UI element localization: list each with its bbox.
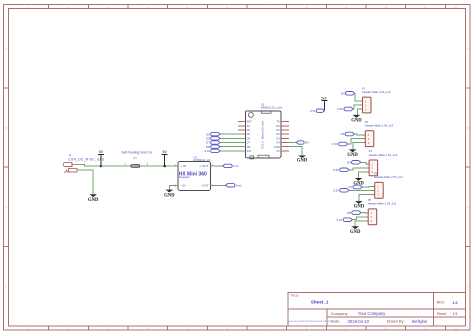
svg-text:D5: D5 — [341, 132, 345, 136]
net label 3.3V at P5 — [336, 218, 352, 222]
junction at J1 5V node — [100, 165, 103, 168]
svg-text:3V3: 3V3 — [247, 149, 252, 153]
net label 3.3v at U3 +OUT — [223, 164, 239, 168]
svg-text:Drawn By:: Drawn By: — [387, 319, 405, 324]
svg-text:3.3v: 3.3v — [233, 164, 239, 168]
net label 3.3v at U1 — [204, 149, 220, 153]
net label 3.3V at P4 — [333, 189, 349, 193]
svg-text:+ OUT: + OUT — [199, 164, 208, 168]
svg-text:GND: GND — [297, 159, 308, 164]
svg-text:A: A — [467, 46, 469, 50]
svg-text:- OUT: - OUT — [201, 184, 209, 188]
svg-text:GND: GND — [354, 205, 365, 210]
svg-text:3.3v: 3.3v — [310, 109, 316, 113]
wire net 3.3V to P4 pin 2 — [349, 189, 372, 191]
net label 3.3V at P1 — [337, 107, 353, 111]
svg-text:3v3: 3v3 — [321, 96, 327, 100]
svg-text:10: 10 — [384, 327, 388, 331]
ground at P5 — [350, 226, 361, 235]
U1 pin D1 — [276, 128, 289, 132]
net label D7 at U1 — [206, 141, 220, 145]
svg-text:F1: F1 — [134, 156, 138, 160]
U1 pin RST — [238, 120, 252, 124]
wire net 3.3v to U1 3V3 — [220, 150, 245, 152]
wire P5 pin 3 to ground — [355, 221, 365, 227]
ground at P2 — [347, 149, 358, 158]
wire net D8 to U1 D8 — [220, 146, 245, 148]
net label D8 at P5 — [347, 211, 361, 215]
svg-text:D5: D5 — [247, 132, 251, 136]
wire U1 D4 to net D4 — [289, 142, 296, 144]
ground at P4 — [354, 201, 365, 210]
svg-text:2019-04-10: 2019-04-10 — [348, 319, 370, 324]
svg-text:GND: GND — [88, 198, 99, 203]
U1 pin D7 — [238, 141, 251, 145]
wire net D7 to P4 pin 1 — [362, 185, 372, 188]
fuse F1 Self-healing fuse 1A — [121, 150, 152, 167]
U1 pin A0 — [238, 124, 250, 128]
svg-text:11: 11 — [424, 5, 427, 9]
connector J1 CON_DC_M-DC_S&D — [63, 153, 105, 173]
svg-text:D: D — [467, 284, 469, 288]
svg-text:5V: 5V — [163, 150, 168, 154]
wire P2 pin 3 to ground — [353, 143, 363, 150]
wire U3 +OUT to 3.3v — [211, 165, 223, 167]
svg-text:RX: RX — [276, 124, 280, 128]
svg-text:Header-Male 2.54_1x3: Header-Male 2.54_1x3 — [362, 90, 391, 94]
svg-text:D4: D4 — [305, 141, 309, 145]
wire P4 pin 3 to ground — [359, 194, 372, 201]
svg-text:10: 10 — [384, 5, 388, 9]
header P5 Header-Male 2.54_1x3 — [366, 198, 397, 225]
net label D6 at P3 — [347, 161, 361, 165]
net label Gnd at U3 -OUT — [226, 184, 242, 188]
svg-text:Header-Male 2.54_1x3: Header-Male 2.54_1x3 — [369, 153, 398, 157]
svg-text:D2: D2 — [276, 132, 280, 136]
svg-text:B: B — [467, 126, 469, 130]
svg-text:11: 11 — [424, 327, 427, 331]
power flag 5V at J1 — [98, 150, 104, 166]
svg-text:V3.1.0: V3.1.0 — [261, 141, 265, 149]
svg-text:5V: 5V — [277, 149, 280, 153]
svg-text:D4: D4 — [276, 141, 280, 145]
svg-text:Header-Male 2.54_1x3: Header-Male 2.54_1x3 — [368, 202, 397, 206]
svg-text:Your Company: Your Company — [358, 311, 386, 316]
svg-text:TITLE:: TITLE: — [290, 294, 299, 298]
svg-text:+ IN: + IN — [181, 164, 187, 168]
svg-text:3.3V: 3.3V — [333, 189, 339, 193]
svg-text:D3: D3 — [276, 136, 280, 140]
svg-text:TX: TX — [276, 120, 280, 124]
svg-text:GND: GND — [350, 230, 361, 235]
svg-text:D1: D1 — [276, 128, 280, 132]
svg-text:Sheet_1: Sheet_1 — [311, 299, 329, 304]
svg-text:thefrybit: thefrybit — [412, 319, 428, 324]
U1 pin D0 — [238, 128, 251, 132]
svg-text:- IN: - IN — [181, 184, 186, 188]
wire U3 -OUT to Gnd — [211, 184, 226, 186]
svg-text:C: C — [5, 205, 7, 209]
svg-text:D8: D8 — [347, 211, 351, 215]
svg-text:Wemos D1 mini: Wemos D1 mini — [261, 120, 265, 139]
wire 5V node to fuse F1 — [101, 165, 131, 167]
wire net D5 to U1 D5 — [220, 133, 245, 135]
svg-text:1.0: 1.0 — [452, 301, 457, 305]
wire J1 pin to 5V net — [78, 165, 102, 167]
net label D5 at U1 — [206, 132, 220, 136]
svg-text:GND: GND — [347, 153, 358, 158]
svg-text:Header-Male 2.54_1x3: Header-Male 2.54_1x3 — [374, 175, 403, 179]
wire net D7 to U1 D7 — [220, 142, 245, 144]
svg-text:RST: RST — [247, 120, 253, 124]
svg-text:5V: 5V — [99, 150, 104, 154]
svg-text:12: 12 — [454, 5, 458, 9]
U1 pin D8 — [238, 145, 251, 149]
svg-text:D8: D8 — [247, 145, 251, 149]
U1 pin D6 — [238, 136, 251, 140]
svg-text:3.3V: 3.3V — [333, 168, 339, 172]
wire P1 pin 3 to ground — [358, 109, 360, 115]
wire net D8 to P5 pin 1 — [361, 212, 366, 214]
svg-text:A0: A0 — [247, 124, 251, 128]
power flag 3v3 — [321, 96, 328, 110]
net label D6 at U1 — [206, 137, 220, 141]
svg-text:D: D — [5, 284, 7, 288]
net label D4 at U1 — [296, 141, 309, 145]
svg-text:3.3V: 3.3V — [336, 218, 342, 222]
svg-text:Regulator: Regulator — [179, 176, 190, 179]
wire P3 pin 3 to ground — [359, 172, 367, 178]
net label 3.3V at P3 — [333, 168, 349, 172]
svg-text:B: B — [5, 126, 7, 130]
svg-text:REV:: REV: — [437, 301, 445, 305]
ground at J1 — [88, 194, 99, 203]
U1 pin D4 — [276, 141, 289, 145]
U1 pin D2 — [276, 132, 289, 136]
wire J1 sleeve to ground — [77, 170, 94, 194]
svg-text:D4: D4 — [341, 92, 345, 96]
power flag 5V at U3 input — [162, 150, 168, 166]
wire net D4 to P1 pin 1 — [355, 93, 360, 101]
svg-text:1/1: 1/1 — [453, 312, 458, 316]
svg-text:GND: GND — [274, 145, 280, 149]
U1 pin RX — [276, 124, 289, 128]
svg-text:3.3V: 3.3V — [337, 107, 343, 111]
wire fuse F1 to U3 +IN — [140, 165, 178, 167]
wire net D6 to U1 D6 — [220, 137, 245, 139]
net label D7 at P4 — [348, 185, 362, 189]
wire U1 GND to ground — [289, 147, 302, 156]
header P4 Header-Male 2.54_1x3 — [372, 172, 403, 199]
svg-text:WEMOS_D1_mini: WEMOS_D1_mini — [261, 105, 282, 109]
svg-text:Self-healing fuse 1A: Self-healing fuse 1A — [121, 150, 152, 154]
ground at U3 input — [164, 190, 175, 199]
svg-text:Gnd: Gnd — [236, 184, 242, 188]
svg-text:easyeda.com/thefrybit/wemos-d1: easyeda.com/thefrybit/wemos-d1-mini-serv… — [289, 320, 335, 323]
svg-text:D7: D7 — [348, 185, 352, 189]
U1 pin GND — [274, 145, 289, 149]
net label D5 at P2 — [341, 132, 355, 136]
svg-text:GND: GND — [164, 193, 175, 198]
svg-text:3.3v: 3.3v — [204, 149, 210, 153]
wire net D5 to P2 pin 1 — [354, 133, 362, 136]
U1 pin TX — [276, 120, 289, 124]
U1 pin 5V — [277, 149, 289, 153]
U1 pin D5 — [238, 132, 251, 136]
ground at P1 — [351, 115, 362, 124]
svg-text:Company:: Company: — [331, 311, 349, 316]
svg-text:3.3V: 3.3V — [332, 142, 338, 146]
wire net 3.3V to P2 pin 2 — [348, 139, 363, 144]
wire net 3.3V to P3 pin 2 — [349, 168, 367, 170]
svg-text:D6: D6 — [247, 136, 251, 140]
wire net 3.3V to P1 pin 2 — [353, 105, 360, 109]
header P1 Header-Male 2.54_1x3 — [360, 86, 391, 113]
net label 3.3V at P2 — [332, 142, 348, 146]
header P3 Header-Male 2.54_1x3 — [367, 149, 398, 176]
svg-text:C: C — [467, 205, 469, 209]
module U1 WEMOS_D1_mini — [245, 102, 282, 158]
svg-text:12: 12 — [454, 327, 458, 331]
svg-text:D6: D6 — [347, 161, 351, 165]
wire net 3.3V to P5 pin 2 — [352, 217, 365, 220]
svg-text:D7: D7 — [247, 141, 251, 145]
ground at P3 — [353, 178, 364, 187]
U1 pin 3V3 — [238, 149, 252, 153]
ground at U1 — [297, 156, 308, 164]
svg-text:GND: GND — [351, 118, 362, 123]
svg-text:Sheet:: Sheet: — [437, 312, 447, 316]
regulator U3 HX Mini 360 — [178, 155, 211, 190]
net label D4 at P1 — [341, 92, 355, 96]
wire net D6 to P3 pin 1 — [361, 162, 367, 164]
net label 3.3v at 3v3 flag — [310, 109, 325, 113]
header P2 Header-Male 2.54_1x3 — [363, 120, 394, 147]
svg-text:CON_DC_M-DC_S&D: CON_DC_M-DC_S&D — [68, 158, 105, 162]
svg-text:A: A — [5, 46, 7, 50]
U1 pin D3 — [276, 136, 289, 140]
svg-text:D0: D0 — [247, 128, 251, 132]
svg-text:Header-Male 2.54_1x3: Header-Male 2.54_1x3 — [365, 124, 394, 128]
junction at U3 input 5V node — [163, 165, 166, 168]
net label D8 at U1 — [206, 145, 220, 149]
wire U3 -IN to ground — [169, 185, 178, 189]
